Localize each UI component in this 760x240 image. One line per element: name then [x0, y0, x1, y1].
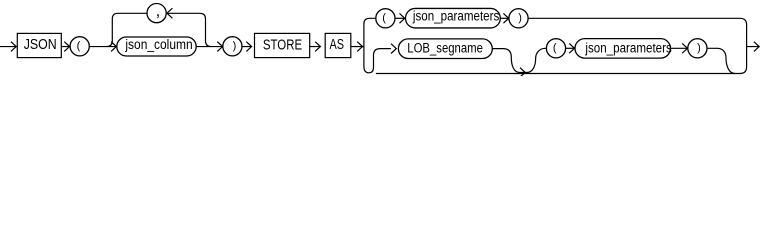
arrowhead into (: [64, 42, 69, 52]
wire: JSON to (: [61, 46, 69, 48]
wire: bottom bypass rail and right merge vertical: [376, 25, 747, 74]
arrowhead into row2 ): [682, 43, 687, 53]
svg-text:(: (: [77, 40, 81, 52]
arrowhead into split: [357, 42, 362, 52]
svg-text:): ): [697, 42, 701, 54]
circle ) top: [509, 9, 528, 28]
wire: loop left side: [107, 13, 147, 46]
svg-text:STORE: STORE: [263, 36, 302, 53]
svg-text:): ): [233, 40, 237, 52]
wire: json_column to ): [196, 46, 222, 48]
arrowhead into json_column: [111, 42, 116, 52]
wire: top branch ( to json_parameters: [395, 17, 405, 19]
wire: split down to LOB row: [364, 47, 391, 73]
svg-text:AS: AS: [330, 36, 344, 53]
svg-text:json_parameters: json_parameters: [584, 40, 671, 55]
keyword box JSON: [17, 33, 61, 57]
keyword box STORE: [255, 33, 310, 57]
circle comma loop: [147, 4, 166, 23]
arrowhead on dip: [520, 68, 525, 77]
oval json_parameters top: [406, 8, 501, 28]
wire: ) to STORE: [242, 46, 252, 48]
keyword box AS: [325, 33, 351, 57]
wire: ( to json_column: [90, 46, 117, 48]
arrowhead into top json_parameters: [400, 13, 405, 23]
wire: entry line: [0, 46, 16, 48]
wire: top branch exit line to right merge: [528, 18, 747, 25]
wire: top json_parameters to ): [500, 17, 508, 19]
arrowhead into ): [217, 42, 222, 52]
wire: row2 json_parameters to ): [670, 47, 687, 49]
svg-text:json_column: json_column: [124, 36, 192, 52]
oval json_parameters row2: [575, 39, 670, 59]
svg-text:,: ,: [156, 2, 161, 20]
arrowhead into top ): [503, 13, 508, 23]
arrowhead into LOB_segname: [391, 44, 396, 54]
svg-text:): ): [518, 12, 522, 24]
wire: ( to json_parameters row2: [566, 47, 575, 49]
arrowhead into JSON: [11, 42, 16, 52]
arrowhead (leftward) into comma circle: [167, 8, 173, 18]
wire: exit line: [747, 46, 760, 48]
circle ) row2: [688, 39, 707, 58]
arrowhead into AS: [315, 42, 320, 52]
svg-text:JSON: JSON: [24, 36, 57, 52]
railroad syntax diagram: JSON (json_column) STORE AS ...: [0, 0, 760, 76]
svg-text:json_parameters: json_parameters: [412, 9, 499, 24]
wire: loop right side: [167, 13, 211, 46]
wire: split up to top branch: [364, 18, 376, 46]
circle ( top: [376, 9, 395, 28]
arrowhead into row2 json_parameters: [569, 43, 574, 53]
wire: row2 ) merge down into rail: [707, 48, 735, 73]
circle ) main: [223, 37, 242, 56]
wire: AS to branch split: [351, 46, 364, 48]
wire: STORE to AS: [310, 46, 321, 48]
svg-text:LOB_segname: LOB_segname: [407, 40, 483, 55]
oval json_column: [117, 37, 196, 56]
circle ( main: [70, 37, 89, 56]
arrowhead exit: [754, 42, 759, 52]
oval LOB_segname: [398, 39, 492, 59]
arrowhead into STORE: [246, 42, 251, 52]
svg-text:(: (: [553, 42, 557, 54]
circle ( row2: [546, 39, 565, 58]
wire: dip after LOB_segname down to rail level: [492, 48, 546, 72]
svg-text:(: (: [382, 12, 386, 24]
